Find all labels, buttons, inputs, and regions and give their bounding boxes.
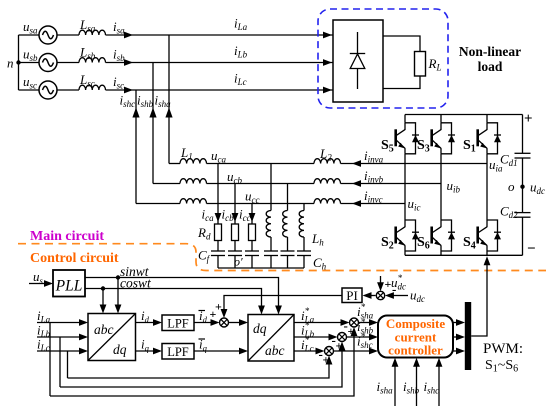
- wire Ch to bus a: [270, 256, 272, 269]
- wire filter row b mid: [207, 183, 315, 185]
- summing junction b: [338, 333, 347, 342]
- svg-text:Lsa: Lsa: [79, 17, 96, 34]
- composite current controller block: [378, 316, 453, 358]
- wire to Cf a: [217, 241, 219, 252]
- svg-text:ucb: ucb: [227, 169, 242, 186]
- wire Lh branch c: [303, 204, 305, 211]
- svg-text:abc: abc: [265, 343, 285, 358]
- arrow feedback c into sum: [326, 356, 333, 365]
- svg-text:S4: S4: [463, 235, 476, 252]
- wire u_s input: [29, 283, 45, 285]
- wire i_La input: [37, 322, 80, 324]
- wire inverter top rail: [405, 114, 523, 116]
- svg-text:uca: uca: [211, 148, 226, 165]
- transistor S5: [404, 123, 406, 130]
- wire controller to PWM: [453, 322, 457, 324]
- svg-text:RL: RL: [428, 56, 442, 73]
- inductor L2 phase a: [314, 159, 341, 164]
- wire i_Lc feedback down: [67, 351, 69, 378]
- inductor L1 phase c: [180, 199, 207, 204]
- capacitor C_f phase b: [228, 250, 242, 252]
- arrow i_sb: [124, 59, 133, 66]
- svg-text:ica: ica: [202, 207, 215, 224]
- svg-text:Cd2: Cd2: [500, 204, 518, 221]
- svg-text:Lsc: Lsc: [79, 72, 95, 89]
- svg-text:ishb: ishb: [137, 93, 154, 110]
- capacitor C_h phase b: [281, 250, 295, 252]
- wire filter row c right: [341, 203, 406, 205]
- wire i_q: [136, 350, 154, 352]
- arrow i_sc: [124, 87, 133, 94]
- wire i_shb measured: [416, 365, 418, 406]
- wire leg1 bottom stub: [404, 251, 406, 255]
- resistor R_d phase b: [232, 224, 239, 241]
- wire i_La-star: [294, 322, 341, 324]
- wire leg3 bottom stub: [486, 251, 488, 255]
- main/control circuit boundary: [18, 244, 546, 271]
- svg-text:n: n: [7, 56, 14, 71]
- arrow i_inva: [352, 160, 361, 167]
- arrow i_shb into controller: [413, 358, 420, 367]
- resistor R_L: [415, 52, 426, 77]
- svg-text:Rd: Rd: [197, 225, 211, 242]
- svg-text:ucc: ucc: [245, 189, 260, 206]
- arrow i_cb: [232, 213, 239, 222]
- svg-text:+: +: [348, 324, 355, 338]
- wire leg2 bottom stub: [440, 251, 442, 255]
- node sinwt junction: [116, 275, 120, 279]
- node o: [520, 185, 524, 189]
- arrow i_La into abc-dq: [79, 319, 88, 326]
- arrow i_shc-star: [369, 348, 378, 355]
- wire i_sha tap: [168, 35, 170, 164]
- summing junction d: [220, 318, 229, 327]
- wire phase b to load: [106, 62, 334, 64]
- svg-text:Lh: Lh: [311, 231, 324, 248]
- AC source u_sb: [39, 54, 57, 72]
- arrow i_sha into controller: [392, 358, 399, 367]
- arrow i_Lc into abc-dq: [79, 348, 88, 355]
- wire iq-bar: [194, 350, 240, 352]
- arrow into PI: [363, 292, 372, 299]
- svg-text:iinvb: iinvb: [364, 168, 384, 185]
- capacitor C_h phase c: [297, 250, 311, 252]
- arrow i_sha: [165, 108, 172, 118]
- svg-text:+: +: [323, 353, 330, 367]
- arrow i_q into LPF: [153, 348, 162, 355]
- arrow iq-bar into dq-abc: [239, 348, 248, 355]
- svg-text:iLc: iLc: [234, 71, 247, 88]
- wire i_shc tap: [135, 90, 137, 204]
- svg-text:Non-linear: Non-linear: [459, 44, 521, 59]
- wire filter row a left: [169, 163, 180, 165]
- svg-text:S2: S2: [381, 235, 394, 252]
- wire PI output: [224, 296, 342, 312]
- wire phase c to load: [106, 89, 334, 91]
- inductor L2 phase b: [314, 179, 341, 184]
- svg-text:+: +: [524, 111, 533, 127]
- wire i_La feedback down: [49, 323, 51, 397]
- svg-text:iLb: iLb: [234, 43, 248, 60]
- wire filter row b right: [341, 183, 442, 185]
- summing junction dc: [376, 291, 384, 299]
- resistor R_d phase c: [249, 224, 256, 241]
- arrow into load phase c: [323, 87, 332, 94]
- arrow into load phase b: [323, 59, 332, 66]
- arrow i_invc: [352, 200, 361, 207]
- block abc-dq: [88, 314, 136, 361]
- wire u_dc-star input: [380, 276, 382, 287]
- wire i_Lc-star: [294, 350, 316, 352]
- svg-text:PLL: PLL: [55, 278, 83, 295]
- wire phase c AC to inductor: [57, 89, 79, 91]
- wire Lh branch b: [287, 184, 289, 211]
- svg-text:iLa: iLa: [234, 16, 248, 33]
- wire feedback rail b: [60, 346, 342, 387]
- svg-text:Cd1: Cd1: [500, 152, 518, 169]
- svg-text:id: id: [141, 308, 150, 325]
- inductor L_sa: [79, 30, 106, 35]
- svg-text:usc: usc: [23, 74, 37, 91]
- svg-text:o: o: [508, 179, 515, 194]
- svg-text:-: -: [392, 282, 396, 297]
- svg-text:icb: icb: [222, 207, 235, 224]
- svg-text:−: −: [527, 241, 536, 257]
- wire filter row a mid: [207, 163, 315, 165]
- wire phase b AC to inductor: [57, 62, 79, 64]
- block dq-abc: [248, 315, 294, 362]
- arrow u_dc-star into sum: [377, 282, 384, 291]
- wire i_shb tap: [152, 63, 154, 184]
- arrow into PWM bar: [456, 334, 465, 341]
- arrow i_shc into controller: [436, 358, 443, 367]
- wire dc rail upper: [522, 115, 524, 154]
- transistor S6: [440, 220, 442, 227]
- svg-text:usb: usb: [23, 47, 38, 64]
- PLL block: [53, 270, 85, 297]
- wire Ch to bus b: [287, 256, 289, 269]
- node coswt junction: [101, 286, 105, 290]
- wire feedback rail c: [68, 360, 330, 378]
- wire dc rail lower: [522, 217, 524, 255]
- wire leg1 top stub: [404, 115, 406, 123]
- svg-text:isha: isha: [377, 379, 394, 396]
- inductor L1 phase b: [180, 179, 207, 184]
- wire o-prime bus: [218, 267, 304, 269]
- arrow PWM into inverter: [484, 256, 491, 265]
- wire coswt: [85, 289, 262, 307]
- rectifier block: [333, 20, 383, 102]
- arrow sum d into dq-abc: [239, 319, 248, 326]
- wire phase b source to AC: [19, 62, 40, 64]
- svg-text:Cf: Cf: [198, 248, 211, 265]
- svg-text:S6: S6: [417, 235, 430, 252]
- svg-text:i*sha: i*sha: [357, 302, 374, 321]
- svg-text:PWM:: PWM:: [483, 341, 523, 357]
- svg-text:usa: usa: [23, 19, 38, 36]
- svg-text:load: load: [478, 59, 503, 74]
- arrow i_shb-star: [369, 334, 378, 341]
- wire i_Lb-star: [294, 336, 329, 338]
- arrow i_shb: [149, 108, 156, 118]
- wire i_Lc input: [37, 350, 80, 352]
- arrow i_sa: [124, 32, 133, 39]
- svg-text:ishc: ishc: [424, 379, 440, 396]
- wire Rd branch b: [234, 184, 236, 225]
- arrow i_ca: [215, 213, 222, 222]
- wire controller to PWM: [453, 350, 457, 352]
- arrow i_Lc-star into sum: [316, 348, 325, 355]
- arrow coswt into abc-dq: [100, 305, 107, 314]
- svg-text:udc: udc: [410, 288, 425, 305]
- capacitor C_d1: [515, 152, 531, 154]
- wire inverter bottom rail: [405, 254, 523, 256]
- wire i_sha measured: [394, 365, 396, 406]
- arrow i_sha-star: [369, 319, 378, 326]
- wire leg3 mid: [486, 154, 488, 220]
- wire filter row a right: [341, 163, 488, 165]
- svg-text:L1: L1: [180, 145, 193, 162]
- arrow i_Lb into abc-dq: [79, 334, 88, 341]
- summing junction a: [350, 318, 359, 327]
- wire feedback rail a: [50, 332, 354, 397]
- wire to Cf b: [234, 241, 236, 252]
- svg-text:S1: S1: [463, 138, 476, 155]
- wire i_shb-star: [347, 336, 370, 338]
- inductor L_h phase b: [283, 211, 288, 238]
- transistor S1: [486, 123, 488, 130]
- wire Lh to Ch a: [270, 237, 272, 251]
- inductor L1 phase a: [180, 159, 207, 164]
- wire: left source bus: [18, 35, 20, 90]
- inductor L_sb: [79, 58, 106, 63]
- svg-text:PI: PI: [346, 288, 358, 303]
- summing junction c: [325, 347, 334, 356]
- wire sum d to dq-abc: [229, 322, 240, 324]
- arrow i_La-star into sum: [341, 319, 350, 326]
- inductor L_h phase a: [266, 211, 271, 238]
- wire phase c source to AC: [19, 89, 40, 91]
- svg-text:controller: controller: [388, 343, 443, 358]
- wire coswt drop to abc-dq: [102, 289, 104, 307]
- wire i_shc measured: [438, 365, 440, 406]
- diode: [357, 32, 359, 89]
- arrow i_cc: [249, 213, 256, 222]
- svg-text:LPF: LPF: [167, 317, 189, 331]
- svg-text:L2: L2: [319, 146, 332, 163]
- svg-text:isa: isa: [113, 19, 125, 36]
- arrow u_dc into sum: [385, 292, 394, 299]
- capacitor C_f phase c: [245, 250, 259, 252]
- svg-text:S3: S3: [417, 138, 430, 155]
- svg-text:coswt: coswt: [120, 276, 152, 291]
- svg-text:iinvc: iinvc: [364, 188, 383, 205]
- wire Lh to Ch b: [287, 237, 289, 251]
- wire phase a to load: [106, 34, 334, 36]
- wire filter row c left: [136, 203, 180, 205]
- capacitor C_h phase a: [264, 250, 278, 252]
- wire i_Lb input: [37, 336, 80, 338]
- LPF block 1: [162, 315, 194, 331]
- svg-text:ishc: ishc: [120, 93, 136, 110]
- arrow i_invb: [352, 180, 361, 187]
- svg-text:isc: isc: [113, 74, 124, 91]
- svg-text:udc: udc: [530, 180, 545, 197]
- wire leg1 mid: [404, 154, 406, 220]
- PWM bar: [465, 302, 471, 370]
- wire Cf to bus b: [234, 256, 236, 269]
- arrow PI into sum d: [221, 309, 228, 318]
- inductor L2 phase c: [314, 199, 341, 204]
- wire Lh branch a: [270, 164, 272, 211]
- arrow i_shc: [132, 108, 139, 118]
- wire sinwt drop to abc-dq: [117, 278, 119, 307]
- wire i_shc-star: [334, 350, 370, 352]
- arrow i_Lb-star into sum: [329, 334, 338, 341]
- wire sum dc to PI: [367, 295, 376, 297]
- transistor S4: [486, 220, 488, 227]
- svg-text:uib: uib: [447, 178, 461, 195]
- svg-text:Main circuit: Main circuit: [30, 229, 104, 244]
- arrow feedback a into sum: [351, 327, 358, 336]
- wire u_dc input: [393, 295, 408, 297]
- wire load bottom: [383, 76, 420, 89]
- arrow feedback b into sum: [339, 342, 346, 351]
- wire leg3 top stub: [486, 115, 488, 123]
- wire dc rail middle: [522, 158, 524, 213]
- wire sinwt: [85, 278, 279, 307]
- arrow i_d into LPF: [153, 319, 162, 326]
- svg-text:dq: dq: [253, 321, 267, 336]
- wire Rd branch a: [217, 164, 219, 225]
- arrow sinwt into dq-abc: [275, 306, 282, 315]
- resistor R_d phase a: [215, 224, 222, 241]
- AC source u_sa: [39, 26, 57, 44]
- arrow into PWM bar: [456, 348, 465, 355]
- PI block: [342, 288, 362, 303]
- svg-text:LPF: LPF: [167, 345, 189, 359]
- wire Cf to bus c: [251, 256, 253, 269]
- arrow coswt into dq-abc: [258, 306, 265, 315]
- arrow into PLL: [44, 280, 53, 287]
- wire to Cf c: [251, 241, 253, 252]
- svg-text:S5: S5: [381, 138, 394, 155]
- non-linear load dashed box: [318, 9, 448, 108]
- wire controller to PWM: [453, 336, 457, 338]
- svg-text:o′: o′: [234, 255, 243, 269]
- wire filter row c mid: [207, 203, 315, 205]
- wire i_d: [136, 322, 154, 324]
- svg-text:S1~S6: S1~S6: [485, 358, 518, 375]
- wire Lh to Ch c: [303, 237, 305, 251]
- inductor L_h phase c: [299, 211, 304, 238]
- transistor S3: [440, 123, 442, 130]
- svg-text:uic: uic: [408, 196, 421, 213]
- svg-text:+: +: [215, 300, 222, 314]
- arrow sinwt into abc-dq: [115, 305, 122, 314]
- svg-text:Ch: Ch: [313, 255, 327, 272]
- wire phase a AC to inductor: [57, 34, 79, 36]
- arrow into load phase a: [323, 32, 332, 39]
- wire i_Lb feedback down: [59, 337, 61, 387]
- svg-text:dq: dq: [113, 342, 127, 357]
- wire Cf to bus a: [217, 256, 219, 269]
- node n: [16, 60, 20, 64]
- svg-text:isb: isb: [113, 47, 125, 64]
- wire leg2 mid: [440, 154, 442, 220]
- wire leg2 top stub: [440, 115, 442, 123]
- wire filter row b left: [153, 183, 180, 185]
- wire PWM to inverter: [471, 265, 487, 336]
- wire Rd branch c: [251, 204, 253, 225]
- capacitor C_f phase a: [211, 250, 225, 252]
- transistor S2: [404, 220, 406, 227]
- AC source u_sc: [39, 81, 57, 99]
- arrow into PWM bar: [456, 319, 465, 326]
- svg-text:Control circuit: Control circuit: [30, 251, 119, 266]
- svg-text:icc: icc: [239, 207, 251, 224]
- svg-text:abc: abc: [94, 322, 114, 337]
- capacitor C_d2: [515, 212, 531, 214]
- wire i_sha-star: [359, 322, 370, 324]
- inductor L_sc: [79, 85, 106, 90]
- wire id-bar: [194, 322, 211, 324]
- LPF block 2: [162, 344, 194, 360]
- wire load top: [383, 36, 420, 52]
- arrow id-bar into sum: [211, 319, 220, 326]
- svg-text:Lsb: Lsb: [79, 45, 96, 62]
- wire Ch to bus c: [303, 256, 305, 269]
- wire phase a source to AC: [19, 34, 40, 36]
- svg-text:iq: iq: [141, 337, 150, 354]
